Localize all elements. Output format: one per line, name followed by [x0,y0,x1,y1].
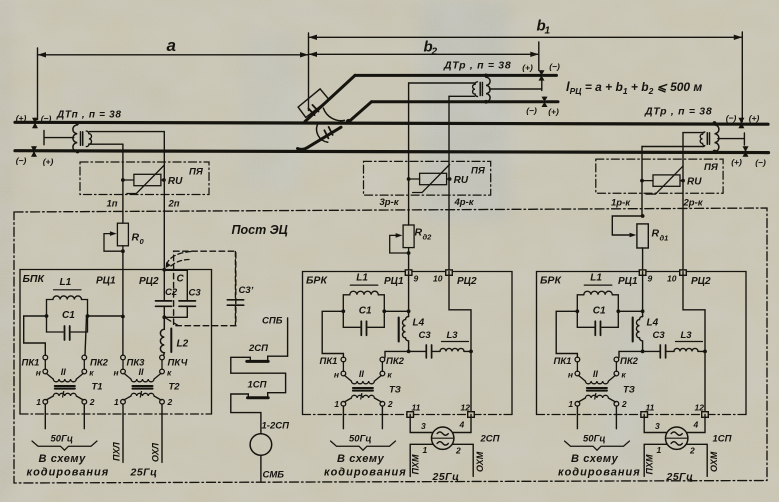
svg-text:lРЦ = a + b1 + b2 ⩽ 500 м: lРЦ = a + b1 + b2 ⩽ 500 м [566,79,702,96]
svg-text:R: R [415,227,423,239]
svg-text:ДТп , п = 38: ДТп , п = 38 [56,110,122,121]
svg-text:(−): (−) [16,156,27,166]
turnout junction node [347,120,351,124]
capacitor C3 [164,270,201,317]
svg-text:L2: L2 [177,339,189,350]
svg-text:(+): (+) [522,63,533,73]
svg-text:ДТр , п = 38: ДТр , п = 38 [644,106,712,118]
svg-text:ПХЛ: ПХЛ [112,442,122,461]
insulated joint branch upper [539,70,545,80]
varistor RU right [640,166,702,194]
svg-text:С2: С2 [165,287,178,298]
svg-text:(+): (+) [16,113,27,123]
capacitor C2 [156,270,178,318]
svg-text:РЦ2: РЦ2 [139,276,159,287]
svg-text:д2: д2 [423,233,433,242]
svg-text:2п: 2п [168,199,180,210]
svg-text:С: С [177,274,185,285]
insulated joint right upper [738,118,744,128]
svg-text:РЦ1: РЦ1 [96,276,116,287]
svg-text:R: R [652,228,660,240]
svg-text:ПЯ: ПЯ [189,167,204,178]
svg-text:3р-к: 3р-к [380,197,400,208]
svg-text:С3: С3 [189,288,202,299]
choke transformer DTr middle [473,74,542,104]
transformer T1 [36,355,95,407]
choke transformer DTr right [700,121,744,153]
svg-text:ОХЛ: ОХЛ [151,442,161,462]
wire tank to RC1 [88,315,123,317]
wire tank to PK1 [24,316,47,355]
angle arc upper [323,108,344,120]
wire 2p down [163,132,165,270]
resistor Rd1 [612,214,668,271]
PYa box right [596,159,723,193]
insulated joint right lower [743,146,749,156]
svg-text:СПБ: СПБ [262,316,283,327]
inductor L2 [160,317,188,355]
T2 output wire PHL [122,404,124,462]
varistor RU middle [407,165,469,193]
wire 1p down [122,144,124,223]
DTp secondary leads [89,132,164,145]
track receiver block BRK (middle) with L1 C1 L4 C3 L3 T3 [303,270,513,483]
svg-text:(−): (−) [526,106,537,116]
svg-text:R: R [132,232,140,244]
svg-text:БПК: БПК [23,273,46,285]
svg-text:1: 1 [545,26,551,37]
svg-text:(−): (−) [755,158,766,168]
dimension a [38,33,309,120]
angle arc lower [317,124,328,143]
svg-text:Т1: Т1 [92,382,103,393]
svg-text:4р-к: 4р-к [454,197,475,208]
node RC1 junction [121,315,125,319]
svg-text:кодирования: кодирования [27,467,110,479]
insulated joint left upper [32,118,38,128]
rail upper [15,122,768,124]
wire 3r-k down [408,83,410,225]
svg-text:(−): (−) [726,113,737,123]
polarity labels left [16,62,766,168]
svg-text:В схему: В схему [39,453,87,465]
svg-text:Т2: Т2 [169,382,181,393]
svg-text:2р-к: 2р-к [683,198,704,209]
lamp SMB [250,434,272,456]
dimension b2 [309,39,539,71]
node junction 2p/RC2 [162,268,166,272]
relay room boundary (dash-dot box) [14,208,767,483]
track receiver block BRK (right) with L1 C1 L4 C3 L3 T3 [537,270,747,483]
brace 50Hz left [32,441,97,450]
relay contact 1SP [231,373,286,407]
svg-text:(−): (−) [549,62,560,72]
node SPB wire [287,318,289,356]
rail lower [15,151,769,153]
svg-text:1СП: 1СП [248,380,267,391]
DTr right secondary leads [642,133,704,147]
svg-text:(+): (+) [731,157,742,167]
wire to lamp SMB [231,407,261,434]
turnout diagonal 1 [305,75,355,121]
T2 output wire OHL [161,404,163,462]
choke transformer DTp left [44,121,92,153]
resistor Rd2 [390,225,432,272]
svg-text:(+): (+) [43,157,54,167]
branch rail upper [355,74,557,77]
insulated joint left lower [31,146,37,156]
wire 2r-k down [682,133,684,272]
svg-text:СМБ: СМБ [263,470,285,481]
svg-text:(+): (+) [749,113,760,123]
LC tank L1 C1 left [45,277,90,340]
insulation ticks on stub [324,127,332,138]
svg-text:1п: 1п [107,199,118,210]
svg-text:С3ʼ: С3ʼ [239,285,254,296]
relay contact 2SP [231,343,288,373]
wire 4r-k down [448,96,450,271]
varistor RU left [121,166,183,194]
branch rail lower [372,100,559,103]
svg-text:д1: д1 [660,234,669,243]
switch machine box [298,89,329,118]
PYa box left [80,162,209,195]
svg-text:2: 2 [431,47,438,58]
insulation ticks on diagonal [309,105,319,115]
svg-text:ПЯ: ПЯ [704,162,719,173]
turnout diagonal 2 [349,102,372,122]
svg-text:1р-к: 1р-к [611,198,631,209]
svg-text:2СП: 2СП [480,434,500,445]
node junction below C2 [162,315,166,319]
transformer T2 [114,355,173,407]
svg-text:1-2СП: 1-2СП [262,421,290,432]
svg-text:Пост ЭЦ: Пост ЭЦ [232,223,288,237]
capacitor C3' [227,252,253,326]
block BPK box [20,270,212,415]
svg-text:ДТр , п = 38: ДТр , п = 38 [443,60,511,72]
svg-text:2СП: 2СП [248,343,268,354]
dimension b1 [309,18,743,122]
wire 1r-k down [641,147,643,217]
svg-text:(−): (−) [41,114,52,124]
wire tank to PK2 [85,316,87,355]
capacitor block C dashed box [166,251,236,326]
PYa box middle [364,161,491,195]
turnout frog stub [298,127,342,149]
DTr middle secondary leads [409,83,475,96]
wire RC1 to PK3 [122,317,124,356]
svg-text:a: a [167,36,176,55]
svg-text:50Гц: 50Гц [51,434,74,445]
insulated joint branch lower [542,97,548,107]
svg-text:(+): (+) [548,107,559,117]
resistor R0 [104,223,145,317]
svg-text:25Гц: 25Гц [130,467,158,479]
T1 output wires 50Hz [45,404,84,429]
svg-text:ПЯ: ПЯ [471,166,486,177]
svg-text:1СП: 1СП [713,434,732,445]
